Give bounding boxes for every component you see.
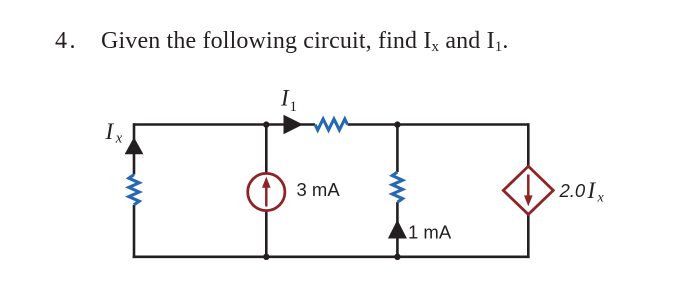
current source U1 arrow (up) [262, 177, 271, 207]
svg-text:3 mA: 3 mA [297, 179, 341, 200]
wire left branch lower (R2 to bottom wire) [133, 205, 136, 258]
resistor R2 (left branch vertical) [129, 175, 139, 205]
svg-text:x: x [115, 131, 123, 147]
svg-text:I: I [280, 86, 290, 111]
resistor R3 (branch3 vertical) [392, 172, 402, 202]
node A (top middle junction) [263, 121, 269, 127]
current direction arrow Ix (left branch, up) [125, 137, 144, 154]
current direction arrow I1 (on top wire) [284, 115, 304, 134]
dependent source U2 diamond (2.0 Ix) [503, 166, 553, 214]
dependent source U2 arrow (down) [524, 175, 533, 207]
svg-text:1: 1 [290, 99, 298, 115]
svg-text:2.0: 2.0 [559, 180, 586, 201]
node B (bottom middle junction) [263, 254, 269, 260]
wire right branch upper (corner to diamond) [527, 123, 530, 167]
node C (top branch3 junction) [394, 121, 400, 127]
svg-text:I: I [587, 178, 597, 203]
wire middle branch upper (node A to current source) [265, 125, 268, 175]
current source U1 circle (3 mA) [248, 173, 285, 210]
svg-text:1 mA: 1 mA [408, 222, 452, 243]
wire branch3 lower (R3 through 1mA arrow to node D) [396, 202, 399, 257]
current direction arrow 1 mA (branch3, up) [388, 220, 407, 239]
resistor R1 (top horizontal) [315, 119, 348, 130]
problem title text [55, 29, 509, 53]
wire middle branch lower (current source to node B) [265, 210, 268, 256]
wire branch3 upper (node C to R3) [396, 125, 399, 173]
wire bottom rail [133, 255, 530, 258]
wire top segment left (node corner to R1) [134, 123, 315, 126]
node D (bottom branch3 junction) [394, 254, 400, 260]
svg-text:x: x [597, 191, 605, 206]
wire left branch upper (corner to R2) [133, 123, 136, 174]
wire top segment right (R1 to top-right corner) [348, 123, 529, 126]
svg-text:I: I [105, 119, 115, 144]
wire right branch lower (diamond to bottom) [527, 214, 530, 258]
